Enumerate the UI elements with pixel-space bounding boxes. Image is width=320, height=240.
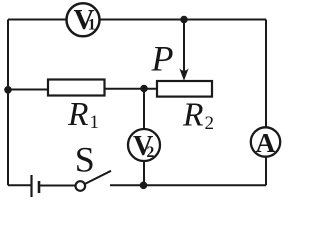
svg-text:R: R xyxy=(182,97,203,134)
svg-text:R: R xyxy=(67,96,88,133)
svg-text:2: 2 xyxy=(205,113,215,134)
svg-text:1: 1 xyxy=(90,112,100,133)
svg-text:1: 1 xyxy=(88,17,96,34)
svg-text:2: 2 xyxy=(147,144,155,161)
svg-text:A: A xyxy=(256,127,276,158)
svg-text:S: S xyxy=(75,140,95,180)
svg-text:P: P xyxy=(151,39,174,79)
